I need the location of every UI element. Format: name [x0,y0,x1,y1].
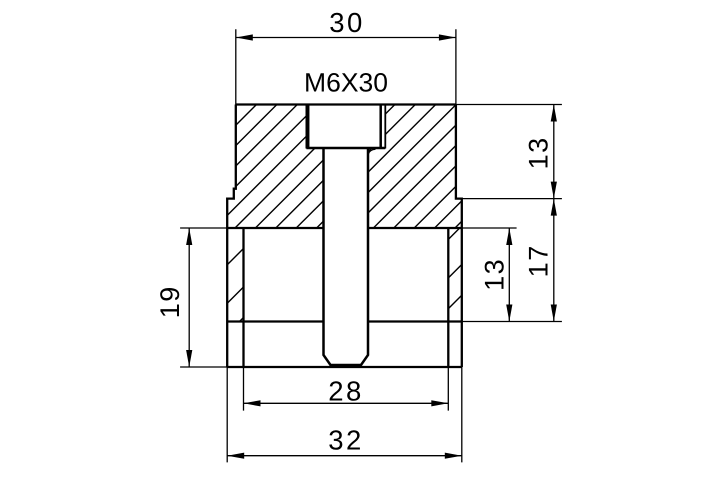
svg-text:19: 19 [155,285,185,318]
svg-text:32: 32 [328,425,364,456]
svg-text:28: 28 [328,376,364,407]
svg-text:13: 13 [524,136,554,169]
svg-text:17: 17 [524,244,554,277]
svg-text:M6X30: M6X30 [304,68,388,98]
svg-text:30: 30 [329,7,365,38]
svg-text:13: 13 [480,258,510,291]
